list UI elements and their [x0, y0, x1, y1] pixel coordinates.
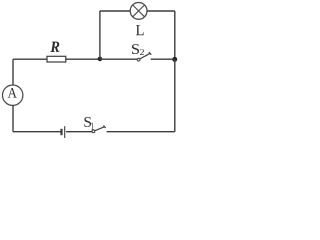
wire: lamp to top-right corner [147, 10, 175, 12]
wire: right vertical down [174, 59, 176, 131]
battery cell: negative plate (short thick) [60, 129, 62, 135]
wire: right branch vertical down to junction [174, 11, 176, 59]
wire: left vertical, ammeter up to middle wire [12, 59, 14, 85]
node: right junction dot [172, 57, 177, 62]
wire: top horizontal to lamp [100, 10, 130, 12]
resistor R [47, 56, 66, 62]
switch S1 blade [95, 126, 106, 131]
switch S2 pivot [137, 58, 140, 61]
label A (ammeter face) [8, 88, 17, 98]
battery cell: positive plate (long thin) [64, 126, 66, 138]
lamp L [130, 3, 147, 20]
wire: switch S2 to right junction [151, 58, 175, 60]
wire: left vertical, bottom corner up to ammeter [12, 106, 14, 132]
wire: resistor to left junction [66, 58, 100, 60]
label L [136, 25, 144, 35]
wire: left junction to switch S2 [100, 58, 137, 60]
label S2 [132, 44, 139, 54]
wire: lamp branch left vertical [99, 11, 101, 59]
wire: middle horizontal, left end to resistor [13, 58, 47, 60]
switch S1 pivot [92, 130, 95, 133]
wire: bottom, right corner to switch S1 [107, 131, 175, 133]
wire: bottom-left corner to battery [13, 131, 61, 133]
label R [50, 42, 59, 52]
ammeter A [3, 85, 23, 105]
wire: battery to switch S1 [66, 131, 92, 133]
label S1 [84, 117, 91, 127]
node: left junction dot [98, 57, 103, 62]
switch S2 blade [140, 52, 151, 59]
